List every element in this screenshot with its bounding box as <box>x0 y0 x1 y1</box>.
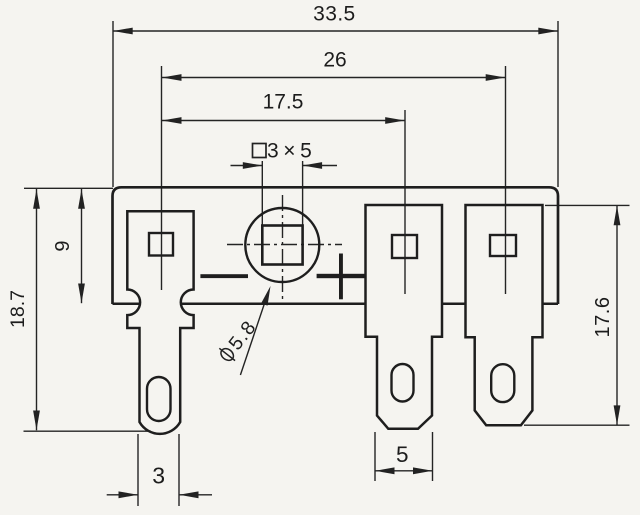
svg-text:3: 3 <box>152 463 165 489</box>
svg-text:17.5: 17.5 <box>263 91 304 114</box>
svg-text:3×5: 3×5 <box>267 140 316 163</box>
svg-text:18.7: 18.7 <box>7 290 29 328</box>
svg-text:5: 5 <box>396 442 409 467</box>
svg-text:9: 9 <box>52 240 74 251</box>
svg-text:17.6: 17.6 <box>592 297 614 338</box>
svg-text:33.5: 33.5 <box>313 3 355 26</box>
svg-text:26: 26 <box>323 49 346 72</box>
